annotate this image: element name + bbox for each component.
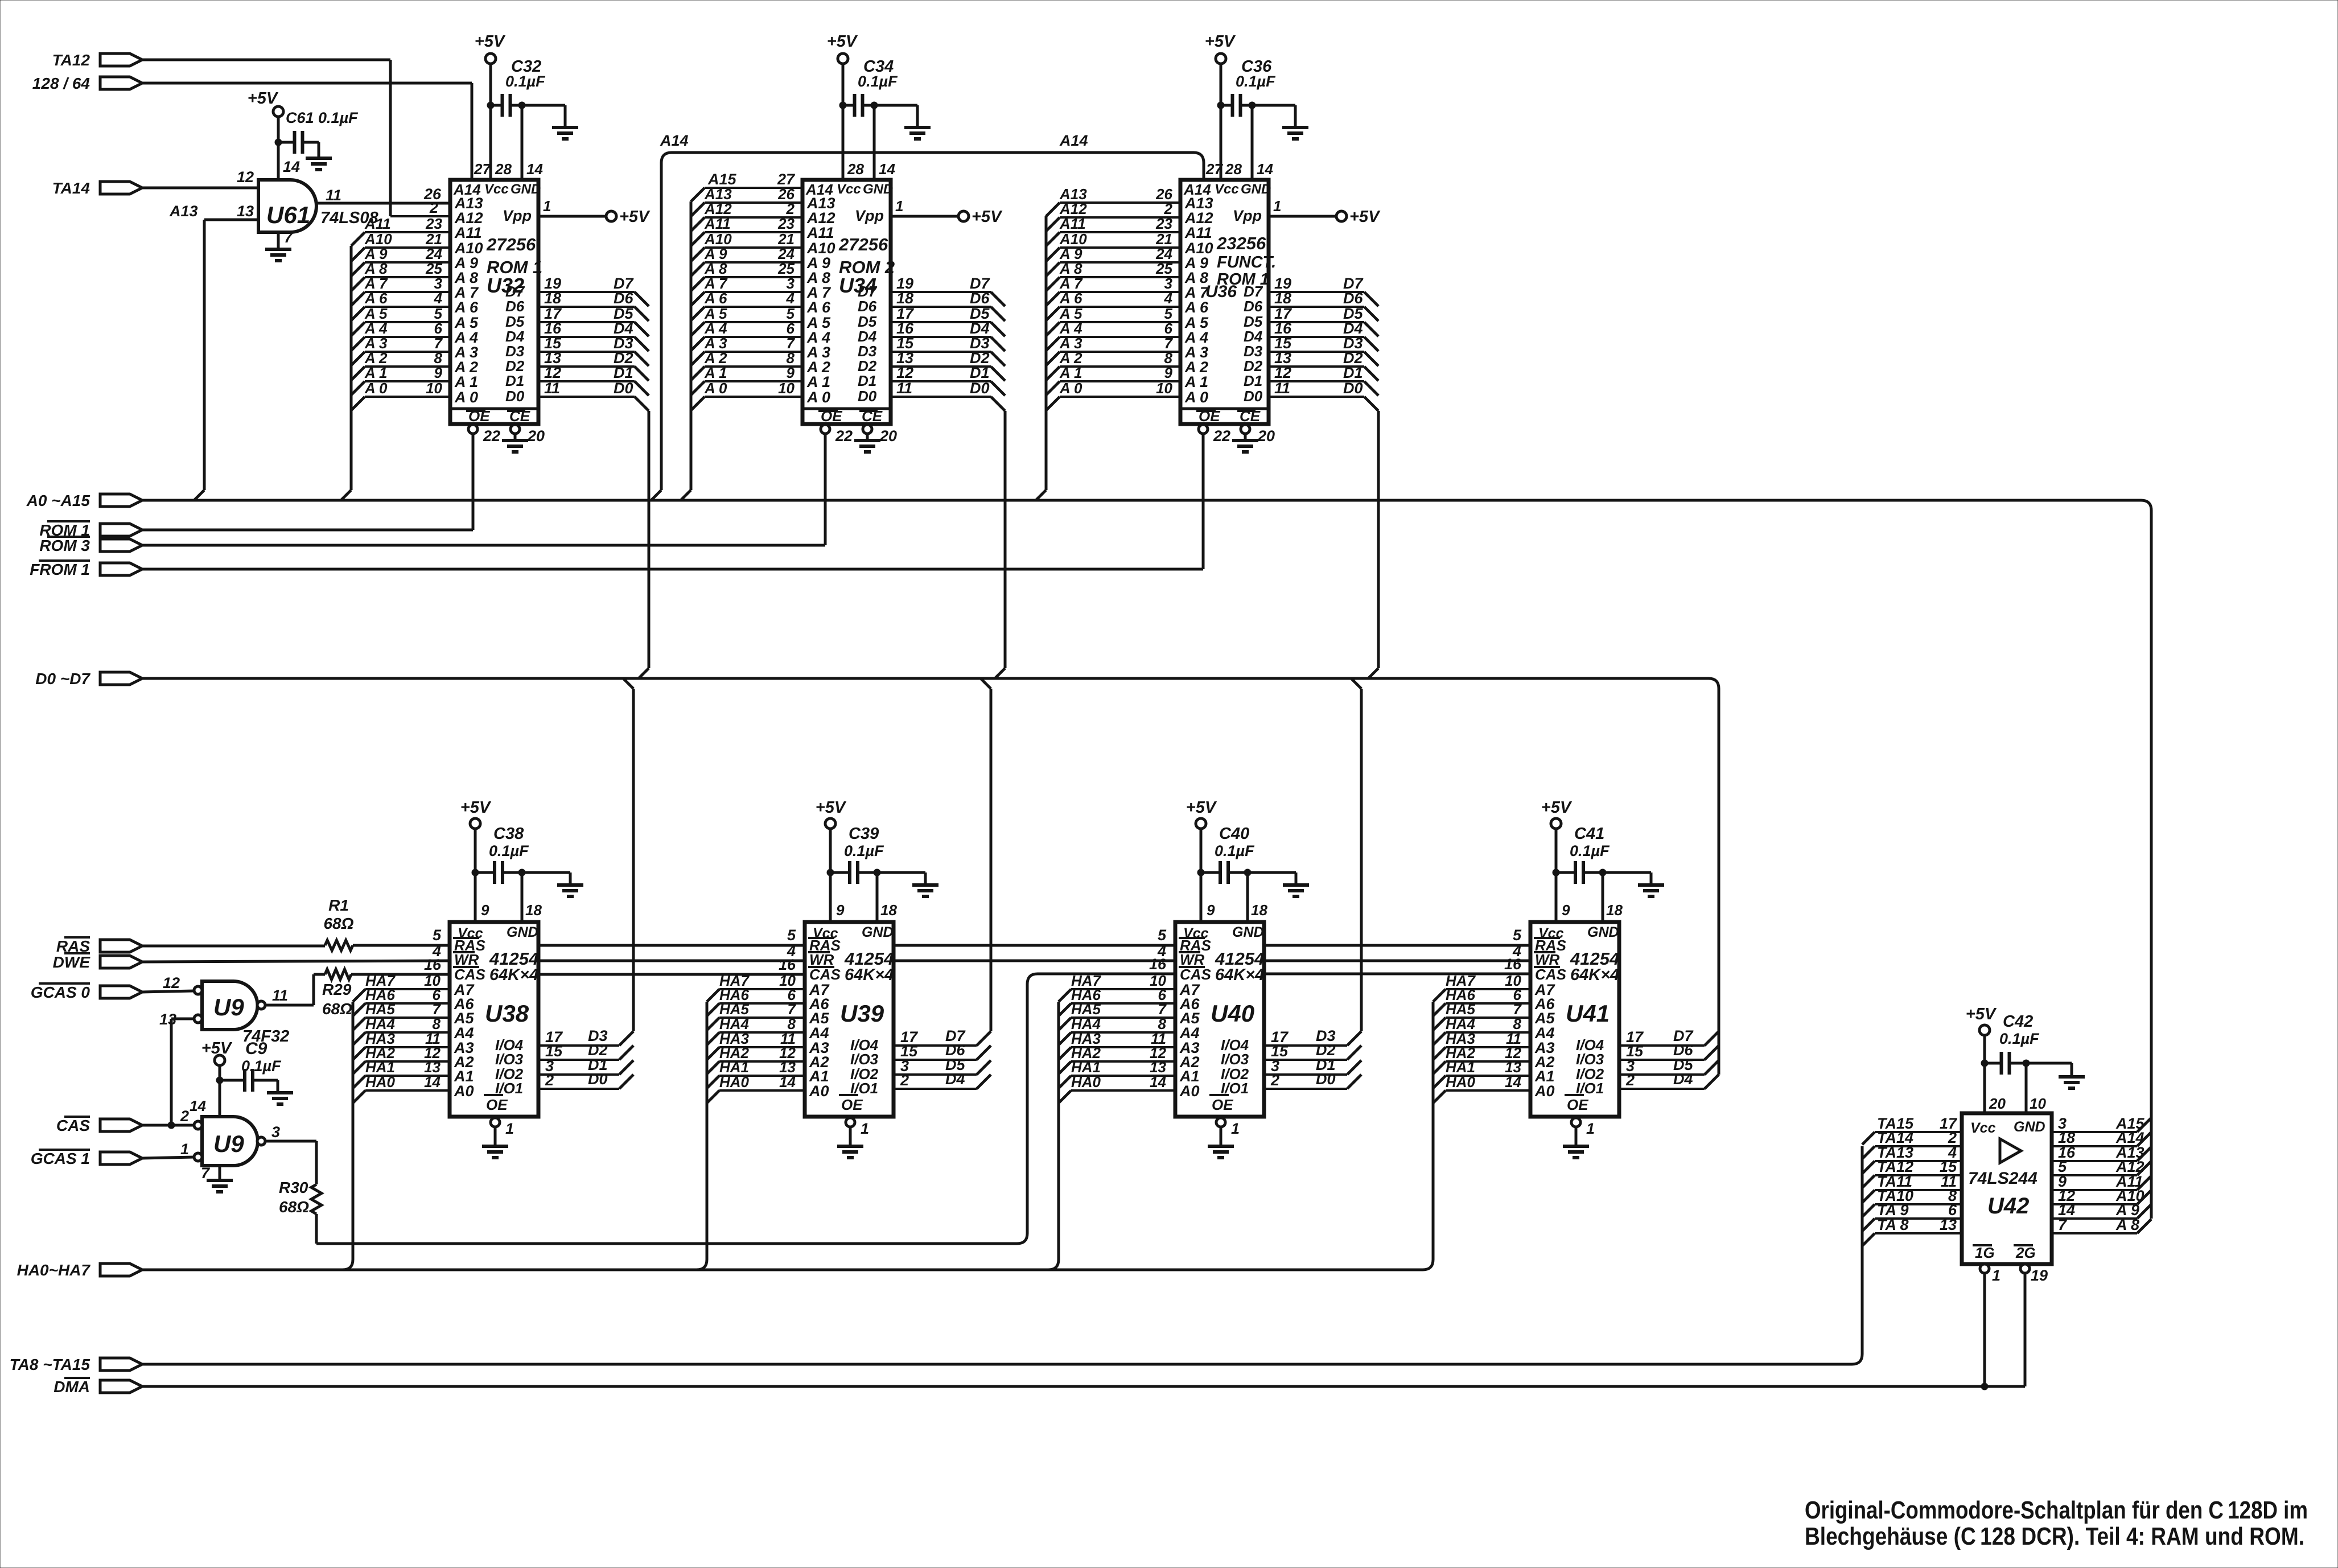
wire DMA to U42 pins 1,19	[142, 1383, 2025, 1390]
U61 Vcc pin 14 + capacitor C61	[248, 89, 359, 180]
svg-text:10: 10	[778, 380, 795, 397]
svg-text:Blechgehäuse (C 128 DCR). Teil: Blechgehäuse (C 128 DCR). Teil 4: RAM un…	[1805, 1522, 2304, 1550]
svg-text:0.1µF: 0.1µF	[241, 1057, 282, 1075]
svg-text:9: 9	[836, 902, 845, 919]
svg-text:20: 20	[1257, 427, 1275, 445]
capacitor C32 0.1uF + Vcc/GND wiring of U32 27256 ROM1	[475, 32, 578, 180]
svg-text:9: 9	[787, 364, 795, 381]
svg-text:A 6: A 6	[806, 299, 831, 316]
OR gate U9 (74F32) lower	[180, 1108, 280, 1166]
svg-text:14: 14	[424, 1073, 441, 1090]
svg-text:C38: C38	[493, 825, 524, 843]
svg-text:GND: GND	[507, 924, 538, 940]
data stubs D0-D7 of U36 23256 FUNCT.ROM1	[1269, 275, 1378, 678]
resistor R1 68 Ohm	[323, 896, 353, 950]
svg-text:A 6: A 6	[704, 290, 727, 307]
svg-text:0.1µF: 0.1µF	[844, 842, 884, 859]
svg-text:D1: D1	[614, 364, 633, 381]
svg-text:11: 11	[544, 380, 560, 397]
svg-text:D1: D1	[858, 372, 876, 389]
svg-text:D0: D0	[614, 380, 633, 397]
svg-text:11: 11	[326, 187, 341, 204]
wire FROM1 select line to U36 OE	[142, 568, 1203, 571]
svg-text:5: 5	[1513, 927, 1522, 944]
svg-text:2: 2	[545, 1072, 554, 1089]
wire RAS to U38..U41 pin 5	[353, 927, 1530, 945]
IC U34 27256 ROM2	[802, 180, 895, 425]
svg-text:2: 2	[1625, 1072, 1635, 1089]
svg-text:16: 16	[1504, 956, 1522, 973]
connector DWE	[53, 953, 142, 971]
CE pin 20 ground of U36 23256 FUNCT.ROM1	[1232, 425, 1275, 452]
svg-text:GCAS 1: GCAS 1	[31, 1150, 90, 1167]
svg-text:A11: A11	[364, 215, 391, 232]
svg-text:A 6: A 6	[364, 290, 388, 307]
svg-text:10: 10	[1156, 380, 1172, 397]
svg-text:9: 9	[1562, 902, 1570, 919]
OE pin 1 ground of U39	[837, 1118, 869, 1158]
svg-text:DMA: DMA	[53, 1378, 90, 1396]
svg-text:A11: A11	[806, 224, 834, 241]
svg-text:C40: C40	[1219, 825, 1249, 843]
OE pin 1 ground of U41	[1563, 1118, 1595, 1158]
svg-text:D0 ~D7: D0 ~D7	[35, 670, 90, 688]
svg-text:D0: D0	[1343, 380, 1363, 397]
svg-text:1: 1	[861, 1120, 869, 1137]
svg-text:26: 26	[423, 186, 442, 203]
svg-text:A 1: A 1	[1184, 373, 1208, 390]
svg-text:A 8: A 8	[2115, 1216, 2139, 1233]
svg-text:D6: D6	[858, 298, 877, 315]
svg-text:1G: 1G	[1975, 1244, 1995, 1261]
svg-text:D1: D1	[1343, 364, 1363, 381]
svg-text:1: 1	[1586, 1120, 1595, 1137]
svg-text:0.1µF: 0.1µF	[1215, 842, 1255, 859]
svg-text:4: 4	[434, 290, 443, 307]
connector A0~A15	[26, 492, 142, 509]
svg-text:23256: 23256	[1216, 233, 1266, 253]
svg-text:0.1µF: 0.1µF	[858, 73, 898, 90]
capacitor C34 0.1uF + Vcc/GND wiring of U34 27256 ROM2	[827, 32, 931, 180]
svg-text:A0: A0	[1179, 1083, 1200, 1100]
wire GCAS0 to U9 pin 12	[142, 991, 194, 992]
svg-text:OE: OE	[1567, 1096, 1588, 1113]
svg-text:28: 28	[1225, 160, 1242, 178]
svg-text:4: 4	[786, 290, 795, 307]
svg-text:D0: D0	[588, 1071, 608, 1088]
connector GCAS1	[31, 1150, 142, 1167]
svg-text:GND: GND	[1587, 924, 1619, 940]
svg-text:+5V: +5V	[827, 32, 858, 51]
svg-text:A 0: A 0	[806, 389, 830, 406]
svg-text:18: 18	[525, 902, 542, 919]
svg-text:A0: A0	[1534, 1083, 1555, 1100]
svg-text:12: 12	[896, 364, 913, 381]
svg-text:22: 22	[835, 427, 853, 445]
svg-text:2G: 2G	[2015, 1244, 2036, 1261]
svg-text:CAS: CAS	[56, 1117, 90, 1134]
A15 stub of U34 (pin 27)	[691, 171, 802, 216]
svg-text:13: 13	[1940, 1216, 1957, 1233]
CE pin 20 ground of U32 27256 ROM1	[502, 425, 545, 452]
svg-text:18: 18	[544, 290, 561, 307]
svg-text:0.1µF: 0.1µF	[505, 73, 546, 90]
capacitor C39 0.1uF + power wiring of U39	[816, 799, 939, 922]
svg-text:U36: U36	[1205, 282, 1237, 301]
svg-text:R30: R30	[279, 1179, 308, 1196]
address stubs / bus taps of U32 27256 ROM1	[341, 215, 450, 500]
svg-text:10: 10	[2030, 1095, 2046, 1112]
svg-text:A0: A0	[809, 1083, 829, 1100]
svg-text:DWE: DWE	[53, 953, 91, 971]
svg-text:1: 1	[505, 1120, 514, 1137]
connector DMA	[53, 1378, 142, 1396]
svg-text:A 0: A 0	[704, 380, 727, 397]
svg-text:+5V: +5V	[475, 32, 506, 51]
wire DWE to U38..U41 WR pin 4	[142, 943, 1530, 962]
svg-text:12: 12	[544, 364, 561, 381]
wire TA12 to U32 A12 pin 2	[142, 60, 450, 216]
capacitor C40 0.1uF + power wiring of U40	[1186, 799, 1309, 922]
IC U39 41254 64Kx4	[805, 922, 894, 1117]
svg-text:7: 7	[201, 1164, 211, 1182]
svg-text:13: 13	[237, 203, 254, 220]
svg-text:A0 ~A15: A0 ~A15	[26, 492, 90, 509]
svg-text:16: 16	[424, 956, 442, 973]
svg-text:GND: GND	[1232, 924, 1264, 940]
svg-text:A 1: A 1	[1059, 364, 1082, 381]
svg-text:R1: R1	[328, 896, 349, 914]
svg-text:ROM 3: ROM 3	[39, 537, 90, 554]
svg-text:16: 16	[1149, 956, 1167, 973]
connector TA12	[52, 51, 142, 69]
svg-text:OE: OE	[486, 1096, 508, 1113]
svg-text:1: 1	[1992, 1267, 2001, 1284]
svg-text:D4: D4	[945, 1071, 965, 1088]
svg-text:U40: U40	[1211, 1000, 1254, 1027]
OE pin 22 of U36 23256 FUNCT.ROM1	[1199, 425, 1230, 569]
resistor R29 68 Ohm	[322, 969, 352, 1018]
svg-text:U38: U38	[485, 1000, 529, 1027]
IC U36 23256 FUNCT.ROM1	[1180, 180, 1276, 425]
svg-text:9: 9	[481, 902, 489, 919]
svg-text:1: 1	[543, 197, 551, 215]
HA0-HA7 address stubs of U40	[1048, 972, 1175, 1270]
svg-text:4: 4	[1164, 290, 1173, 307]
IC U32 27256 ROM1	[450, 180, 542, 425]
svg-text:18: 18	[1606, 902, 1623, 919]
svg-text:+5V: +5V	[248, 89, 279, 108]
IC U40 41254 64Kx4	[1175, 922, 1264, 1117]
svg-text:A 0: A 0	[1059, 380, 1082, 397]
svg-text:28: 28	[495, 160, 512, 178]
connector GCAS0	[31, 983, 142, 1001]
svg-text:12: 12	[163, 974, 180, 991]
HA0-HA7 address stubs of U38	[343, 972, 450, 1270]
svg-text:D6: D6	[1244, 298, 1263, 315]
wire U9.3 output to resistor R30	[265, 1141, 316, 1184]
svg-text:16: 16	[779, 956, 796, 973]
svg-text:C61 0.1µF: C61 0.1µF	[286, 109, 359, 126]
svg-text:Vpp: Vpp	[855, 207, 884, 224]
svg-text:D6: D6	[1343, 290, 1363, 307]
svg-text:27: 27	[474, 160, 491, 178]
svg-text:U9: U9	[213, 1130, 244, 1157]
data I/O stubs of U41	[1619, 1027, 1719, 1089]
Vpp +5V of U36 23256 FUNCT.ROM1	[1269, 197, 1381, 226]
svg-text:64K×4: 64K×4	[845, 966, 894, 984]
svg-text:68Ω: 68Ω	[322, 1000, 352, 1018]
svg-text:1: 1	[1231, 1120, 1240, 1137]
svg-text:GND: GND	[863, 182, 893, 197]
svg-text:Vcc: Vcc	[484, 182, 509, 197]
svg-text:28: 28	[847, 160, 864, 178]
svg-text:U39: U39	[840, 1000, 884, 1027]
svg-text:TA 8: TA 8	[1877, 1216, 1909, 1233]
Vpp +5V of U32 27256 ROM1	[538, 197, 651, 226]
svg-text:C39: C39	[849, 825, 879, 843]
Vpp +5V of U34 27256 ROM2	[891, 197, 1003, 226]
svg-text:23: 23	[425, 215, 442, 232]
svg-text:GND: GND	[862, 924, 894, 940]
OR gate U9 (74F32) upper	[159, 974, 289, 1046]
capacitor C36 0.1uF + Vcc/GND wiring of U36 23256 FUNCT.ROM1	[1205, 32, 1308, 180]
capacitor C38 0.1uF + power wiring of U38	[460, 799, 583, 922]
svg-text:A 6: A 6	[454, 299, 479, 316]
svg-text:11: 11	[272, 987, 288, 1004]
svg-text:14: 14	[1150, 1073, 1166, 1090]
svg-text:14: 14	[1257, 160, 1273, 178]
connector TA14	[52, 179, 142, 197]
svg-text:A 1: A 1	[454, 373, 478, 390]
svg-text:9: 9	[434, 364, 443, 381]
svg-text:C41: C41	[1574, 825, 1604, 843]
svg-text:18: 18	[896, 290, 913, 307]
svg-text:0.1µF: 0.1µF	[1570, 842, 1610, 859]
svg-text:68Ω: 68Ω	[323, 915, 353, 932]
svg-text:+5V: +5V	[1205, 32, 1236, 51]
svg-text:FROM 1: FROM 1	[30, 561, 90, 578]
connector RAS	[56, 937, 142, 955]
wire HA0~HA7 bus	[142, 1269, 1423, 1271]
svg-text:3: 3	[271, 1123, 280, 1141]
svg-text:+5V: +5V	[972, 208, 1003, 226]
svg-text:A 0: A 0	[1184, 389, 1208, 406]
wire CAS connector to U9 pin 2 / pin 13 riser	[142, 1019, 194, 1129]
svg-text:14: 14	[190, 1097, 206, 1114]
AND gate U61 74LS08	[237, 168, 378, 232]
svg-text:Vpp: Vpp	[1233, 207, 1262, 224]
svg-text:GND: GND	[2014, 1119, 2045, 1135]
connector ROM3	[39, 537, 142, 554]
svg-text:27256: 27256	[838, 234, 888, 254]
connector HA0~HA7	[17, 1261, 142, 1279]
svg-text:2: 2	[1270, 1072, 1279, 1089]
data stubs D0-D7 of U34 27256 ROM2	[891, 275, 1005, 678]
svg-text:+5V: +5V	[1186, 799, 1217, 817]
svg-text:20: 20	[1989, 1095, 2006, 1112]
IC U41 41254 64Kx4	[1530, 922, 1619, 1117]
svg-text:18: 18	[880, 902, 897, 919]
wire CAS line to U38 pin16 and U39 pin16	[351, 956, 805, 974]
wire TA14 to U61 pin 12	[142, 187, 258, 190]
svg-text:11: 11	[896, 380, 912, 397]
HA0-HA7 address stubs of U39	[697, 972, 805, 1270]
svg-text:C42: C42	[2003, 1013, 2033, 1031]
capacitor C9 0.1uF with +5V	[190, 1039, 293, 1117]
svg-text:U61: U61	[266, 201, 310, 228]
svg-text:27256: 27256	[486, 234, 536, 254]
svg-text:68Ω: 68Ω	[279, 1198, 309, 1216]
wire A0~A15 address bus	[142, 500, 2151, 1219]
OE pin 1 ground of U40	[1208, 1118, 1240, 1158]
capacitor C42 0.1uF + power of U42	[1966, 1005, 2085, 1113]
svg-text:A14: A14	[1059, 132, 1088, 149]
svg-text:+5V: +5V	[460, 799, 492, 817]
svg-text:14: 14	[283, 158, 300, 175]
OE pin 22 of U32 27256 ROM1	[468, 425, 500, 530]
svg-text:A14: A14	[660, 132, 689, 149]
U61 ground pin 7	[265, 229, 294, 261]
IC U38 41254 64Kx4	[450, 922, 538, 1117]
data I/O stubs of U39	[894, 678, 991, 1089]
svg-text:1: 1	[895, 197, 903, 215]
U9 lower ground pin 7	[201, 1164, 233, 1192]
svg-text:5: 5	[1158, 927, 1167, 944]
connector FROM1	[30, 561, 142, 578]
svg-text:64K×4: 64K×4	[1215, 966, 1264, 984]
svg-text:+5V: +5V	[1541, 799, 1573, 817]
wire GCAS1 to U9 pin 1	[142, 1157, 194, 1158]
svg-text:14: 14	[879, 160, 895, 178]
svg-text:74LS244: 74LS244	[1968, 1169, 2037, 1188]
svg-text:64K×4: 64K×4	[1570, 966, 1619, 984]
svg-text:A11: A11	[1059, 215, 1086, 232]
svg-text:22: 22	[1213, 427, 1230, 445]
svg-text:Vcc: Vcc	[1215, 182, 1239, 197]
svg-text:+5V: +5V	[1349, 208, 1381, 226]
svg-text:2: 2	[900, 1072, 909, 1089]
svg-text:D6: D6	[614, 290, 633, 307]
wire U61 output pin 11 to U32 A13 pin 26	[316, 186, 450, 203]
svg-text:D0: D0	[1244, 388, 1263, 405]
data I/O stubs of U38	[538, 678, 633, 1089]
wire ROM1 select line to U32 OE	[142, 529, 473, 532]
svg-text:U9: U9	[213, 994, 244, 1020]
svg-text:Vcc: Vcc	[1970, 1120, 1996, 1136]
svg-text:A11: A11	[704, 215, 731, 232]
IC U42 74LS244 buffer	[1962, 1113, 2052, 1264]
wire A14 from A bus to U36 pin 27	[651, 132, 1223, 500]
svg-text:7: 7	[284, 229, 294, 246]
svg-text:A 6: A 6	[1059, 290, 1082, 307]
svg-text:Vcc: Vcc	[837, 182, 861, 197]
svg-text:A0: A0	[454, 1083, 474, 1100]
svg-text:GND: GND	[511, 182, 541, 197]
wire ROM3 select line to U34 OE	[142, 544, 825, 547]
svg-text:CAS: CAS	[454, 966, 486, 983]
svg-text:HA0: HA0	[719, 1073, 750, 1090]
svg-text:+5V: +5V	[1966, 1005, 1997, 1023]
svg-text:CAS: CAS	[1535, 966, 1567, 983]
svg-text:HA0: HA0	[1446, 1073, 1476, 1090]
svg-text:C9: C9	[245, 1039, 267, 1058]
svg-text:128 / 64: 128 / 64	[32, 75, 90, 92]
svg-text:A13: A13	[169, 203, 198, 220]
svg-text:D0: D0	[970, 380, 990, 397]
svg-text:20: 20	[879, 427, 897, 445]
CE pin 20 ground of U34 27256 ROM2	[854, 425, 897, 452]
svg-text:0.1µF: 0.1µF	[489, 842, 529, 859]
U42 enable pins 1 and 19 to DMA	[1980, 1264, 2048, 1386]
svg-text:HA0: HA0	[1071, 1073, 1101, 1090]
svg-text:0.1µF: 0.1µF	[1236, 73, 1276, 90]
svg-text:D6: D6	[505, 298, 525, 315]
wire R30 to CAS of U40/U41	[316, 956, 1530, 1244]
svg-text:D0: D0	[505, 388, 525, 405]
A8-A15 output stubs of U42 to A bus	[2052, 1115, 2151, 1233]
svg-text:18: 18	[1251, 902, 1267, 919]
connector CAS	[56, 1117, 142, 1134]
svg-text:D0: D0	[858, 388, 877, 405]
wire D0~D7 data bus	[142, 678, 1719, 1075]
svg-text:64K×4: 64K×4	[489, 966, 538, 984]
svg-text:D0: D0	[1316, 1071, 1336, 1088]
svg-text:U42: U42	[1987, 1194, 2029, 1219]
resistor R30 68 Ohm	[279, 1179, 322, 1216]
svg-text:D6: D6	[970, 290, 990, 307]
svg-text:9: 9	[1207, 902, 1215, 919]
U36 designator label	[1205, 282, 1237, 301]
wire U61 pin 13 to A bus (A13)	[169, 203, 258, 500]
svg-text:27: 27	[1205, 160, 1223, 178]
svg-text:14: 14	[1505, 1073, 1521, 1090]
svg-text:10: 10	[426, 380, 442, 397]
svg-text:7: 7	[2058, 1216, 2068, 1233]
wire RAS line with resistor R1	[142, 945, 325, 948]
svg-text:22: 22	[483, 427, 500, 445]
wire TA8~TA15 bus to U42	[142, 1146, 1862, 1364]
svg-text:FUNCT.: FUNCT.	[1217, 253, 1276, 271]
address stubs / bus taps of U36 23256 FUNCT.ROM1	[1036, 186, 1180, 500]
OE pin 1 ground of U38	[482, 1118, 514, 1158]
svg-text:HA0: HA0	[365, 1073, 396, 1090]
svg-text:18: 18	[1274, 290, 1291, 307]
svg-text:A11: A11	[1184, 224, 1212, 241]
OE pin 22 of U34 27256 ROM2	[821, 425, 853, 545]
svg-text:OE: OE	[841, 1096, 863, 1113]
svg-text:D4: D4	[1673, 1071, 1693, 1088]
svg-text:14: 14	[779, 1073, 796, 1090]
HA0-HA7 address stubs of U41	[1423, 972, 1530, 1270]
svg-text:A 1: A 1	[364, 364, 388, 381]
svg-text:+5V: +5V	[816, 799, 847, 817]
svg-text:11: 11	[1274, 380, 1290, 397]
svg-text:+5V: +5V	[619, 208, 651, 226]
svg-text:OE: OE	[1212, 1096, 1233, 1113]
svg-text:+5V: +5V	[201, 1039, 233, 1057]
svg-text:TA8 ~TA15: TA8 ~TA15	[10, 1356, 90, 1373]
svg-text:1: 1	[1273, 197, 1281, 215]
svg-text:GCAS 0: GCAS 0	[31, 983, 90, 1001]
data I/O stubs of U40	[1264, 678, 1361, 1089]
svg-text:5: 5	[433, 927, 442, 944]
caption text	[1805, 1496, 2308, 1550]
address stubs / bus taps of U34 27256 ROM2	[681, 186, 802, 500]
svg-text:CAS: CAS	[809, 966, 841, 983]
svg-text:20: 20	[527, 427, 545, 445]
svg-text:23: 23	[1155, 215, 1172, 232]
